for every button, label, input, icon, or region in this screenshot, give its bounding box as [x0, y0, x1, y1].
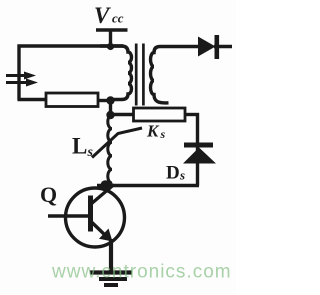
svg-text:Q: Q — [40, 182, 57, 207]
svg-text:s: s — [160, 127, 166, 141]
svg-text:cc: cc — [112, 11, 124, 26]
svg-text:www.cntronics.com: www.cntronics.com — [51, 262, 232, 283]
svg-text:s: s — [179, 168, 185, 183]
svg-text:s: s — [87, 145, 94, 160]
svg-text:K: K — [146, 122, 160, 141]
svg-text:V: V — [94, 3, 111, 28]
svg-text:D: D — [166, 163, 180, 184]
svg-text:L: L — [72, 134, 87, 159]
